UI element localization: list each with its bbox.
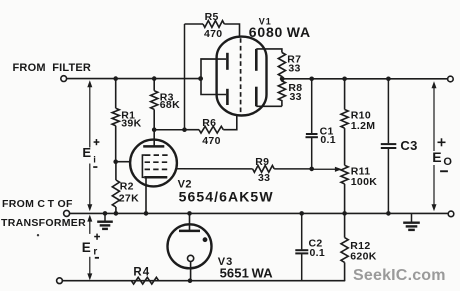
- label R2 27K: [119, 181, 139, 205]
- node junction dot R10 top: [342, 77, 347, 82]
- tube V1 plate bar upper: [226, 53, 229, 70]
- label R12 620K: [350, 240, 376, 263]
- tube V3 cathode lead: [190, 262, 192, 281]
- label E_i: [82, 139, 99, 168]
- node junction dot R1/R2/grid: [113, 159, 118, 164]
- svg-text:O: O: [443, 156, 452, 168]
- node junction dot C2 top: [299, 211, 304, 216]
- svg-text:1.2M: 1.2M: [351, 120, 376, 132]
- node junction dot R1 top: [113, 76, 118, 81]
- ground symbol right: [403, 213, 420, 230]
- svg-text:0.1: 0.1: [310, 247, 326, 259]
- label R9 33: [255, 156, 270, 184]
- svg-text:0.1: 0.1: [320, 134, 336, 146]
- wire cathode top to R7: [256, 49, 282, 53]
- wire V2 to R9: [176, 168, 253, 170]
- resistor R5: [185, 21, 240, 37]
- node junction dot R9/C1: [309, 167, 314, 172]
- label E_r: [82, 234, 100, 259]
- node junction dot R11 bottom: [342, 211, 347, 216]
- tube V3 plate bar: [179, 230, 200, 233]
- node junction dot V3 top: [187, 211, 192, 216]
- svg-text:5651 WA: 5651 WA: [220, 265, 274, 280]
- resistor R8: [278, 79, 285, 107]
- wire V1 plate feed: [201, 59, 226, 95]
- node junction dot C3 top: [386, 77, 391, 82]
- label R1 39K: [121, 110, 141, 130]
- resistor R3: [151, 79, 158, 130]
- svg-text:E: E: [82, 145, 91, 160]
- tube V3 plate lead: [189, 213, 191, 230]
- tube V1 envelope: [217, 37, 267, 116]
- tube V1 grid (dashed): [240, 38, 242, 114]
- tube V1 cathode bar upper: [255, 49, 258, 71]
- resistor R2: [112, 162, 119, 214]
- resistor R12: [341, 213, 348, 280]
- label R11 100K: [351, 166, 377, 189]
- svg-text:FROM FILTER: FROM FILTER: [13, 62, 92, 74]
- wire ground rail: [70, 212, 448, 214]
- tube V1 cathode bar lower: [255, 87, 258, 107]
- wire bottom rail: [63, 280, 345, 282]
- svg-text:5654/6AK5W: 5654/6AK5W: [179, 188, 274, 204]
- tube V3 cathode circle: [188, 255, 194, 261]
- svg-text:R5: R5: [205, 11, 219, 23]
- svg-text:E: E: [432, 149, 441, 165]
- node junction dot R3 top: [152, 76, 157, 81]
- tube V2 grid lead: [116, 161, 131, 163]
- node E_r arrow lower: [87, 257, 92, 281]
- node E_o arrow lower: [432, 165, 437, 211]
- tube V1 plate bar lower: [226, 89, 229, 105]
- resistor R4: [131, 277, 158, 284]
- capacitor C2: [295, 213, 308, 280]
- label R10 1.2M: [351, 110, 376, 133]
- output terminal upper: [448, 76, 454, 82]
- label R7 33: [287, 53, 301, 74]
- svg-text:68K: 68K: [160, 99, 180, 111]
- bottom terminal left: [57, 278, 63, 284]
- node junction dot R2 bottom: [114, 211, 119, 216]
- wire R8 to cathode bottom: [256, 105, 282, 107]
- svg-text:33: 33: [290, 91, 302, 103]
- capacitor C1: [306, 79, 318, 169]
- node E_i arrow upper: [87, 80, 92, 147]
- node junction dot plate feed: [198, 76, 203, 81]
- tube V2 cathode bar: [144, 176, 167, 179]
- node junction dot V2 cathode: [144, 211, 149, 216]
- wire tap arrow to R11: [312, 167, 342, 172]
- svg-text:620K: 620K: [350, 251, 376, 263]
- resistor R1: [112, 79, 119, 162]
- svg-text:TRANSFORMER: TRANSFORMER: [1, 217, 86, 229]
- tube V2 grid rows (dashed): [145, 155, 170, 169]
- svg-text:470: 470: [202, 135, 220, 147]
- tube V3 gas dot: [203, 237, 208, 242]
- node E_o arrow upper: [432, 81, 437, 151]
- wire filter rail: [67, 78, 201, 80]
- label R3 68K: [160, 91, 180, 111]
- tube V2 plate bar: [143, 145, 164, 148]
- svg-text:100K: 100K: [351, 176, 377, 188]
- wire R9 to junction: [274, 168, 312, 170]
- svg-text:6080 WA: 6080 WA: [249, 24, 311, 40]
- label C1 0.1: [320, 126, 336, 146]
- svg-text:33: 33: [288, 62, 300, 74]
- svg-text:R2: R2: [120, 181, 134, 193]
- svg-text:R9: R9: [255, 156, 269, 168]
- svg-text:R4: R4: [133, 266, 150, 278]
- wire output rail: [283, 78, 448, 80]
- svg-text:27K: 27K: [119, 193, 139, 205]
- wire V2 plate to drive node: [154, 129, 184, 131]
- output terminal lower: [448, 211, 454, 217]
- label E_o: [432, 138, 452, 172]
- node E_r arrow upper: [87, 215, 92, 234]
- svg-text:FROM C T OF: FROM C T OF: [2, 198, 73, 210]
- svg-text:39K: 39K: [121, 117, 141, 129]
- tube V3 envelope: [168, 224, 212, 268]
- label C2 0.1: [309, 238, 326, 260]
- wire grid drive vertical: [184, 24, 186, 130]
- node junction dot V2 plate: [152, 127, 157, 132]
- label R8 33: [288, 82, 302, 103]
- resistor R7: [278, 53, 285, 79]
- svg-text:470: 470: [204, 28, 222, 40]
- resistor R10: [341, 79, 348, 166]
- tube V2 plate lead: [153, 130, 155, 146]
- node junction dot C3 bottom: [386, 211, 391, 216]
- svg-text:R6: R6: [202, 117, 216, 129]
- svg-text:i: i: [93, 155, 96, 166]
- capacitor C3: [381, 79, 397, 214]
- tube V2 envelope: [130, 140, 177, 187]
- label R6 470: [202, 117, 220, 147]
- node junction dot V3 bottom: [188, 278, 193, 283]
- svg-text:E: E: [82, 240, 91, 255]
- tube V2 grid bracket: [142, 155, 145, 177]
- speck: [37, 234, 39, 236]
- svg-text:r: r: [93, 246, 97, 257]
- label R5 470: [204, 11, 222, 40]
- resistor R11 (adjustable): [341, 165, 348, 213]
- svg-text:SeekIC.com: SeekIC.com: [353, 267, 446, 284]
- svg-text:33: 33: [258, 172, 270, 184]
- node junction dot drive: [182, 127, 187, 132]
- resistor R9: [253, 166, 275, 173]
- resistor R6: [185, 115, 237, 133]
- node junction dot C1 top: [309, 77, 314, 82]
- node junction dot ground left: [103, 211, 108, 216]
- svg-text:C3: C3: [400, 138, 417, 153]
- ground symbol left: [97, 213, 113, 229]
- tube V2 cathode lead: [145, 177, 147, 213]
- node E_i arrow lower: [87, 164, 92, 212]
- input terminal (FROM CT): [64, 210, 70, 216]
- node junction dot R7/R8: [280, 76, 285, 81]
- input terminal (FROM FILTER): [61, 76, 67, 82]
